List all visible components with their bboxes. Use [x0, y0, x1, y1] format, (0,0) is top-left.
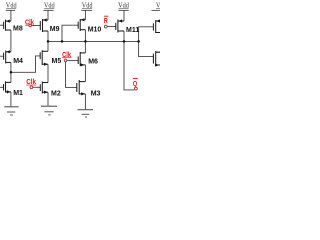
svg-text:R: R — [104, 18, 108, 25]
svg-text:M1: M1 — [13, 90, 23, 97]
svg-text:M11: M11 — [126, 27, 139, 34]
svg-text:M10: M10 — [88, 27, 102, 34]
svg-text:M4: M4 — [13, 58, 23, 65]
svg-text:M2: M2 — [51, 91, 61, 98]
svg-text:M9: M9 — [50, 26, 60, 33]
svg-text:M8: M8 — [13, 26, 23, 33]
svg-text:M6: M6 — [88, 59, 98, 66]
svg-text:M3: M3 — [91, 91, 101, 98]
svg-text:M5: M5 — [52, 58, 62, 65]
